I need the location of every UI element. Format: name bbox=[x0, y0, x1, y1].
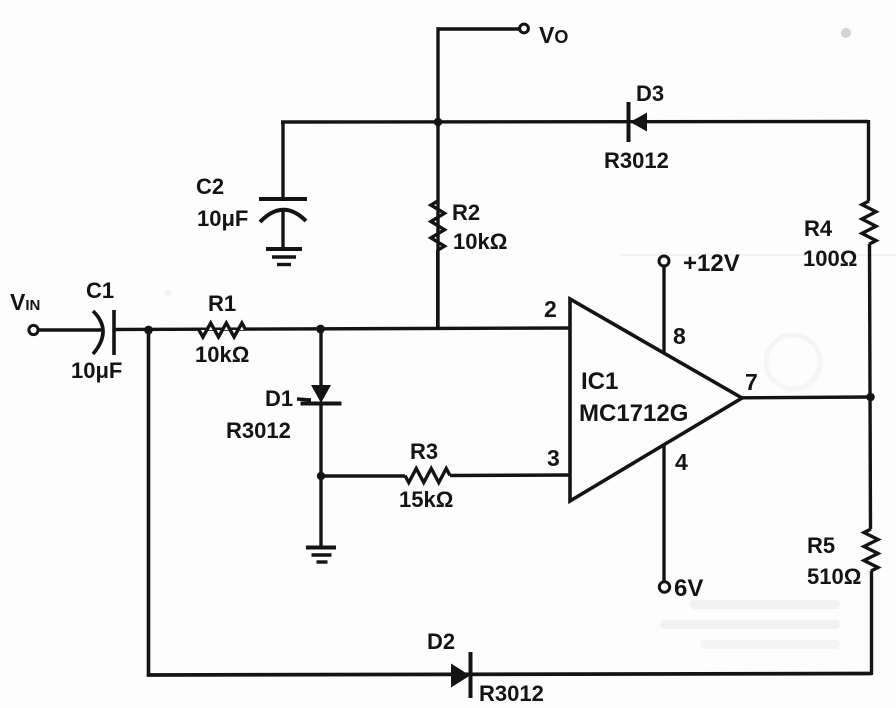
svg-text:C2: C2 bbox=[196, 174, 224, 199]
svg-text:MC1712G: MC1712G bbox=[579, 400, 688, 427]
svg-text:10μF: 10μF bbox=[197, 206, 248, 231]
svg-text:10kΩ: 10kΩ bbox=[195, 342, 249, 367]
svg-text:10kΩ: 10kΩ bbox=[453, 229, 507, 254]
svg-text:4: 4 bbox=[675, 449, 688, 475]
svg-text:7: 7 bbox=[745, 369, 758, 395]
svg-text:R3012: R3012 bbox=[604, 148, 669, 173]
svg-text:D3: D3 bbox=[636, 81, 664, 106]
svg-text:C1: C1 bbox=[86, 278, 114, 303]
svg-text:R3012: R3012 bbox=[226, 418, 291, 443]
svg-text:100Ω: 100Ω bbox=[803, 246, 857, 271]
svg-text:510Ω: 510Ω bbox=[807, 564, 861, 589]
svg-text:R4: R4 bbox=[804, 216, 833, 241]
svg-text:D2: D2 bbox=[427, 629, 455, 654]
svg-text:R3012: R3012 bbox=[479, 681, 544, 706]
svg-text:R1: R1 bbox=[208, 291, 236, 316]
svg-text:R3: R3 bbox=[410, 439, 438, 464]
svg-text:2: 2 bbox=[544, 296, 557, 322]
svg-text:15kΩ: 15kΩ bbox=[399, 487, 453, 512]
svg-text:IC1: IC1 bbox=[581, 368, 618, 395]
svg-text:10μF: 10μF bbox=[71, 358, 122, 383]
svg-text:D1: D1 bbox=[265, 386, 293, 411]
svg-text:R5: R5 bbox=[807, 533, 835, 558]
svg-text:+12V: +12V bbox=[683, 250, 740, 277]
svg-text:R2: R2 bbox=[452, 200, 480, 225]
svg-text:8: 8 bbox=[673, 323, 686, 349]
svg-text:6V: 6V bbox=[674, 575, 703, 602]
svg-text:3: 3 bbox=[547, 445, 560, 471]
